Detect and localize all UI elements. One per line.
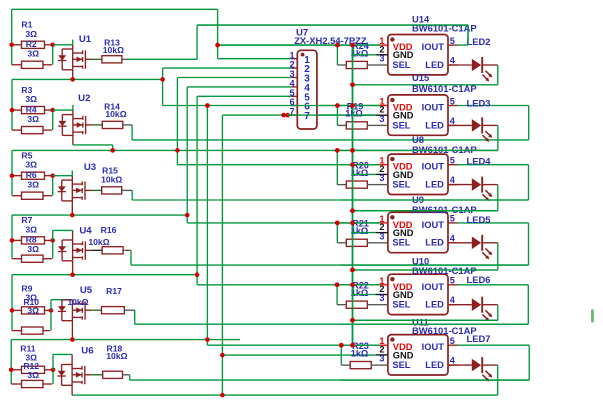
node U11 GND tie <box>220 353 225 358</box>
svg-text:LED: LED <box>425 360 444 370</box>
wire R6 right lead <box>43 195 52 197</box>
svg-text:3Ω: 3Ω <box>27 370 39 380</box>
wire U2 drain jog <box>73 144 113 146</box>
node R3-R4 junction <box>50 108 55 113</box>
node R21 branch <box>335 221 340 226</box>
svg-text:3Ω: 3Ω <box>25 94 37 104</box>
svg-text:IOUT: IOUT <box>422 42 445 52</box>
wire LED returns overstroke <box>353 210 498 212</box>
svg-text:5: 5 <box>450 36 455 46</box>
wire pin1 feed overstroke <box>340 164 380 166</box>
wire R2 left lead <box>12 64 22 66</box>
svg-text:10kΩ: 10kΩ <box>101 174 122 184</box>
svg-text:5: 5 <box>450 336 455 346</box>
svg-text:10kΩ: 10kΩ <box>88 237 109 247</box>
wire pin1 net overstroke <box>218 44 340 46</box>
transistor U1 <box>58 40 92 80</box>
svg-text:IOUT: IOUT <box>422 282 445 292</box>
svg-text:4: 4 <box>450 295 456 305</box>
wire LED2 cathode return <box>497 65 499 85</box>
svg-text:3: 3 <box>379 231 384 241</box>
wire R7 left lead <box>12 239 22 241</box>
wire pin6 crossing <box>291 105 380 107</box>
wire pin7 crossing <box>287 114 375 116</box>
resistor R3 body <box>22 107 45 114</box>
wire R15 to IOUT3 net <box>122 189 133 191</box>
label U15 designator and value <box>412 72 477 94</box>
wire junction to U4 <box>52 230 54 240</box>
svg-text:LED: LED <box>425 60 444 70</box>
wire R19 branch <box>336 106 338 126</box>
svg-text:3Ω: 3Ω <box>25 29 37 39</box>
node rail LED2 return <box>350 83 355 88</box>
svg-text:LED2: LED2 <box>467 36 491 47</box>
wire R9 right lead <box>45 309 52 311</box>
wire U5 gate to R17 <box>92 309 102 311</box>
wire R7 right lead <box>45 239 53 241</box>
node junction dots overstroke <box>335 43 340 48</box>
node row2 supply tie <box>160 77 165 82</box>
resistor R9 body <box>22 307 45 314</box>
node R1-R2 junction <box>50 43 55 48</box>
wire U1 gate to R13 <box>92 58 102 60</box>
node U1 drain <box>70 77 75 82</box>
node rail LED5 return <box>350 268 355 273</box>
wire U14 GND stub <box>351 54 375 56</box>
resistor R8 body <box>22 255 44 262</box>
LED LED2 <box>448 57 498 82</box>
node U3 drain <box>70 213 75 218</box>
resistor R15 body <box>102 187 122 194</box>
wire row2 top net <box>12 78 163 80</box>
svg-text:5: 5 <box>450 214 455 224</box>
label U8 designator and value <box>412 134 477 155</box>
node left rail junction row3 <box>10 173 15 178</box>
svg-text:1kΩ: 1kΩ <box>351 48 369 58</box>
wire VDD rail overstroke <box>352 45 354 345</box>
svg-text:U4: U4 <box>79 226 92 237</box>
wire R17 to IOUT5 net <box>124 309 134 311</box>
wire LED3 cathode return <box>497 125 499 150</box>
resistor R6 body <box>22 192 44 199</box>
node row6 bottom tie <box>220 393 225 398</box>
wire R20 branch <box>336 150 338 184</box>
wire R11 left lead <box>11 369 21 371</box>
transistor U5 <box>58 300 92 340</box>
wire LED5 cathode return <box>497 243 499 270</box>
wire U2 gate to R14 <box>92 124 102 126</box>
svg-text:LED: LED <box>425 300 444 310</box>
wire pin1 feed overstroke <box>340 222 380 224</box>
svg-text:3Ω: 3Ω <box>27 244 39 254</box>
wire R21 to SEL <box>367 242 380 244</box>
wire R21 branch <box>336 223 338 243</box>
svg-text:10kΩ: 10kΩ <box>106 351 127 361</box>
node left rail junction row1 <box>9 43 14 48</box>
node rail U11 VDD <box>350 343 355 348</box>
wire R19 to SEL <box>367 124 380 126</box>
resistor R14 body <box>102 121 123 128</box>
wire R9 left lead <box>12 309 22 311</box>
node LED4 return <box>350 208 355 213</box>
svg-text:5: 5 <box>450 156 455 166</box>
svg-text:U15: U15 <box>412 72 429 83</box>
wire row4 top net <box>12 214 187 216</box>
node pin7 double dot <box>281 113 286 118</box>
wire U7 pin2 net <box>163 67 292 69</box>
node U4 drain <box>70 272 75 277</box>
node row6 supply tie <box>205 337 210 342</box>
wire U7 pin5 net <box>197 95 291 97</box>
wire junction to U1 <box>53 44 73 46</box>
wire R24 branch <box>336 45 338 65</box>
IC U10 BW6101-C1AP <box>376 274 458 314</box>
svg-text:LED: LED <box>425 238 444 248</box>
resistor R20 1k <box>346 181 367 188</box>
svg-text:R6: R6 <box>26 170 37 180</box>
resistor R22 1k <box>346 301 367 308</box>
svg-text:5: 5 <box>450 276 455 286</box>
svg-text:3Ω: 3Ω <box>25 224 37 234</box>
svg-text:LED: LED <box>425 120 444 130</box>
wire junction to U5 <box>50 300 52 311</box>
svg-text:LED: LED <box>425 180 444 190</box>
svg-text:R17: R17 <box>106 286 122 296</box>
IC U15 BW6101-C1AP <box>376 95 458 135</box>
wire row3 top net <box>12 149 498 151</box>
svg-text:1kΩ: 1kΩ <box>351 168 369 178</box>
svg-text:4: 4 <box>450 56 456 66</box>
svg-text:U5: U5 <box>80 285 93 296</box>
svg-text:3Ω: 3Ω <box>27 114 39 124</box>
svg-text:SEL: SEL <box>392 120 410 130</box>
svg-text:IOUT: IOUT <box>422 103 445 113</box>
connector U7 ZX-XH2.54-7PZZ <box>289 50 316 129</box>
transistor U2 <box>58 105 92 145</box>
wire R2 right lead <box>43 64 52 66</box>
wire row1 top net <box>12 8 218 10</box>
svg-text:GND: GND <box>393 290 414 300</box>
wire pin1 feed overstroke <box>340 284 380 286</box>
wire R10 left lead <box>12 330 22 332</box>
resistor R16 body <box>102 247 123 254</box>
svg-text:3Ω: 3Ω <box>27 49 39 59</box>
wire row6 bottom net <box>72 394 498 396</box>
node rail U10 VDD <box>350 283 355 288</box>
wire R23 to SEL <box>371 364 380 366</box>
wire R20 to SEL <box>367 184 380 186</box>
resistor R4 body <box>22 127 44 134</box>
wire LED7 cathode return <box>497 365 499 395</box>
transistor U3 <box>58 171 92 216</box>
node U5 drain <box>70 337 75 342</box>
svg-text:1kΩ: 1kΩ <box>351 348 369 358</box>
node pin1 branch <box>215 43 220 48</box>
wire R3 left lead <box>12 109 22 111</box>
node row3 supply tie <box>175 148 180 153</box>
svg-text:3Ω: 3Ω <box>27 179 39 189</box>
wire row5 top net <box>12 274 197 276</box>
label U14 designator and value <box>412 13 477 33</box>
node R7-R8 junction <box>50 238 55 243</box>
label U11 designator and value <box>412 316 477 336</box>
node R22 branch <box>335 283 340 288</box>
svg-text:4: 4 <box>450 175 456 185</box>
node LED2 return <box>350 83 355 88</box>
wire U4 gate to R16 <box>92 249 102 251</box>
wire junction to U3 <box>53 175 73 177</box>
resistor R24 1k <box>346 61 367 68</box>
wire R4 right lead <box>43 129 52 131</box>
svg-text:GND: GND <box>393 50 414 60</box>
node R5-R6 junction <box>50 173 55 178</box>
wire R8 right lead <box>43 258 52 260</box>
transistor U6 <box>57 354 91 395</box>
node rail U9 VDD <box>350 221 355 226</box>
wire R24 to SEL <box>367 64 380 66</box>
node R11-R12 junction <box>51 368 56 373</box>
wire R14 to IOUT2 net <box>123 124 132 126</box>
resistor R17 body <box>102 307 125 314</box>
resistor R18 body <box>103 371 123 378</box>
wire R10 right lead <box>43 330 50 332</box>
wire R22 to SEL <box>367 304 380 306</box>
wire U10 GND stub <box>351 294 375 296</box>
wire stub far right <box>591 310 594 323</box>
wire U15 GND stub <box>351 114 375 116</box>
node rail LED6 return <box>350 318 355 323</box>
svg-text:R8: R8 <box>26 235 37 245</box>
wire R5 left lead <box>12 175 22 177</box>
node LED5 return <box>350 268 355 273</box>
svg-text:3Ω: 3Ω <box>27 306 39 316</box>
node left rail junction row6 <box>9 368 14 373</box>
svg-text:U3: U3 <box>84 162 96 173</box>
svg-text:LED4: LED4 <box>467 156 492 167</box>
svg-text:GND: GND <box>393 111 414 121</box>
LED LED7 <box>448 357 498 382</box>
wire U7 pin3 net <box>177 77 291 79</box>
node R20 branch <box>335 148 340 153</box>
LED LED3 <box>448 117 498 141</box>
node left rail junction row5 <box>10 308 15 313</box>
svg-text:BW6101-C1AP: BW6101-C1AP <box>412 22 477 33</box>
svg-text:GND: GND <box>393 350 414 360</box>
wire U7 pin7 net <box>222 114 291 116</box>
IC U14 BW6101-C1AP <box>376 35 458 75</box>
wire pin1 feed overstroke <box>340 344 380 346</box>
svg-text:LED6: LED6 <box>467 274 491 285</box>
resistor R2 body <box>22 61 44 68</box>
LED LED4 <box>448 177 498 202</box>
wire R18 to IOUT6 net <box>123 374 130 376</box>
wire row3 top overstroke <box>340 149 498 151</box>
wire VDD rail <box>352 45 354 345</box>
wire R8 left lead <box>12 258 22 260</box>
wire LED4 cathode return <box>497 185 499 211</box>
svg-text:4: 4 <box>450 356 456 366</box>
wire R6 left lead <box>12 195 22 197</box>
svg-text:10kΩ: 10kΩ <box>67 297 88 307</box>
resistor R13 body <box>102 56 122 63</box>
svg-text:SEL: SEL <box>392 360 410 370</box>
svg-text:R2: R2 <box>26 39 37 49</box>
wire pin1 feed overstroke <box>340 44 380 46</box>
wire IOUT1 overstroke <box>197 24 468 26</box>
wire R1 left lead <box>12 44 22 46</box>
resistor R23 1k <box>350 362 371 369</box>
svg-text:SEL: SEL <box>392 300 410 310</box>
resistor R5 body <box>22 172 45 179</box>
svg-text:GND: GND <box>393 228 414 238</box>
wire U7 pin1 net <box>217 9 219 58</box>
node R24 branch <box>335 43 340 48</box>
wire R22 branch <box>336 285 338 305</box>
wire R5 right lead <box>45 175 53 177</box>
wire junction to U2 <box>53 109 73 111</box>
node left rail junction row2 <box>10 108 15 113</box>
svg-text:U6: U6 <box>81 346 93 357</box>
IC U11 BW6101-C1AP <box>376 335 458 375</box>
svg-text:7: 7 <box>304 111 310 122</box>
svg-text:3: 3 <box>379 293 384 303</box>
svg-text:3: 3 <box>379 114 384 124</box>
svg-text:IOUT: IOUT <box>422 220 445 230</box>
svg-text:R4: R4 <box>26 104 37 114</box>
wire R1 right lead <box>45 44 53 46</box>
wire R12 left lead <box>11 383 21 385</box>
svg-text:SEL: SEL <box>392 180 410 190</box>
wire R3 right lead <box>45 109 53 111</box>
wire U6 gate to R18 <box>91 374 102 376</box>
svg-text:SEL: SEL <box>392 238 410 248</box>
transistor U4 <box>58 230 92 274</box>
wire R11 right lead <box>45 369 54 371</box>
node rail row3-LED3 <box>350 148 355 153</box>
LED LED5 <box>448 235 498 259</box>
wire U8 GND stub <box>351 173 375 175</box>
svg-text:GND: GND <box>393 170 414 180</box>
node R19 branch <box>335 103 340 108</box>
svg-text:1kΩ: 1kΩ <box>345 109 363 119</box>
resistor R1 body <box>22 41 45 48</box>
node row4 supply tie <box>185 213 190 218</box>
node R9-R10 junction <box>49 308 54 313</box>
wire R13 to IOUT1 net <box>122 58 128 60</box>
wire gate nets overstroke <box>340 199 529 201</box>
node rail LED4 return <box>350 208 355 213</box>
wire R4 left lead <box>12 129 22 131</box>
wire U7 pin6 net <box>163 105 380 107</box>
node pin6 branch <box>205 103 210 108</box>
wire U3 gate to R15 <box>92 189 102 191</box>
svg-text:3: 3 <box>379 354 384 364</box>
wire row6 top net <box>11 339 240 341</box>
svg-text:3: 3 <box>379 54 384 64</box>
wire R12 right lead <box>43 383 52 385</box>
svg-text:R16: R16 <box>101 225 117 235</box>
node rail U8 VDD <box>350 162 355 167</box>
svg-text:U1: U1 <box>79 34 92 45</box>
label U9 designator and value <box>412 194 477 215</box>
wire U7 pin4 net <box>187 86 291 88</box>
svg-text:IOUT: IOUT <box>422 162 445 172</box>
IC U8 BW6101-C1AP <box>376 154 458 194</box>
resistor R7 body <box>22 237 45 244</box>
resistor R19 1k <box>346 122 367 129</box>
svg-text:10kΩ: 10kΩ <box>103 45 124 55</box>
svg-text:1kΩ: 1kΩ <box>351 226 369 236</box>
node rail U15 VDD <box>350 103 355 108</box>
wire R23 branch <box>340 345 342 365</box>
svg-text:LED5: LED5 <box>467 214 491 225</box>
wire R16 to IOUT4 net <box>123 249 131 251</box>
node LED6 return <box>350 318 355 323</box>
resistor R11 body <box>22 366 45 373</box>
svg-text:U2: U2 <box>78 93 90 104</box>
label U10 designator and value <box>412 256 477 276</box>
svg-text:BW6101-C1AP: BW6101-C1AP <box>412 144 477 155</box>
node row5 supply tie <box>195 272 200 277</box>
svg-text:3Ω: 3Ω <box>25 160 37 170</box>
IC U9 BW6101-C1AP <box>376 212 458 252</box>
svg-text:4: 4 <box>450 116 456 126</box>
resistor R21 1k <box>346 239 367 246</box>
resistor R10 body <box>22 327 44 334</box>
wire junction to U6 <box>52 354 54 369</box>
svg-text:SEL: SEL <box>392 60 410 70</box>
svg-text:10kΩ: 10kΩ <box>105 109 126 119</box>
svg-text:5: 5 <box>450 96 455 106</box>
LED LED6 <box>448 297 498 322</box>
svg-text:LED7: LED7 <box>467 333 491 344</box>
wire pin1 feed overstroke <box>340 105 380 107</box>
svg-text:4: 4 <box>450 233 456 243</box>
node R23 branch <box>339 343 344 348</box>
svg-text:LED3: LED3 <box>467 98 491 109</box>
svg-text:IOUT: IOUT <box>422 342 445 352</box>
wire U9 GND stub <box>351 232 375 234</box>
node left rail junction row4 <box>10 238 15 243</box>
svg-text:3: 3 <box>379 173 384 183</box>
wire LED6 cathode return <box>497 305 499 321</box>
svg-text:1kΩ: 1kΩ <box>351 288 369 298</box>
node rail top <box>350 43 355 48</box>
resistor R12 body <box>22 380 44 387</box>
node U2 drain <box>110 148 115 153</box>
